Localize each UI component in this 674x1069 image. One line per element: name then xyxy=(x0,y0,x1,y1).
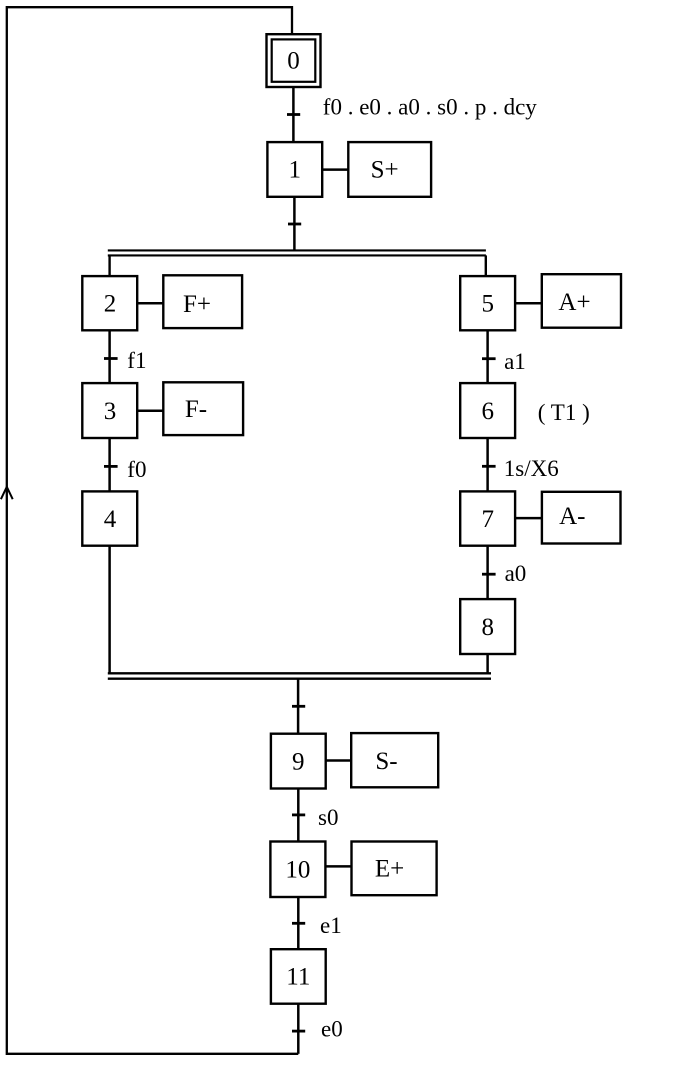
svg-text:4: 4 xyxy=(104,506,117,533)
svg-text:a0: a0 xyxy=(505,561,527,586)
parallel split double line xyxy=(108,249,486,251)
transition tick dcy xyxy=(287,113,300,116)
transition tick after step 1 xyxy=(288,223,301,226)
svg-text:A+: A+ xyxy=(558,289,590,316)
svg-text:E+: E+ xyxy=(375,855,404,882)
svg-text:a1: a1 xyxy=(504,349,526,374)
wire step 7 to transition a0 xyxy=(486,546,489,599)
transition tick f1 xyxy=(104,357,118,360)
svg-text:f0 . e0 . a0 . s0 . p . dcy: f0 . e0 . a0 . s0 . p . dcy xyxy=(323,95,537,120)
parallel join double line xyxy=(108,672,491,674)
transition tick f0 xyxy=(104,465,118,468)
step 11 box xyxy=(271,949,326,1004)
svg-text:11: 11 xyxy=(286,964,310,991)
step 3 box xyxy=(82,383,137,438)
link step 10 to action E+ xyxy=(325,865,351,868)
svg-text:6: 6 xyxy=(482,398,495,425)
transition tick after join xyxy=(292,705,305,708)
svg-text:3: 3 xyxy=(104,398,117,425)
link step 3 to action F- xyxy=(137,409,163,412)
step 8 box xyxy=(460,599,515,654)
step 2 box xyxy=(82,276,137,330)
svg-text:S+: S+ xyxy=(371,157,399,184)
transition tick e0 xyxy=(292,1030,305,1033)
initial step 0 inner box xyxy=(272,39,316,81)
transition tick 1s/X6 xyxy=(482,465,496,468)
link step 2 to action F+ xyxy=(137,302,163,305)
link step 1 to action S+ xyxy=(322,168,348,171)
wire step 2 to transition f1 xyxy=(108,330,111,383)
transition tick e1 xyxy=(292,922,305,925)
svg-text:F+: F+ xyxy=(183,291,211,318)
wire step 6 to transition 1s/X6 xyxy=(486,438,489,491)
svg-text:s0: s0 xyxy=(318,805,338,830)
step 4 box xyxy=(82,491,137,545)
wire step 0 to transition dcy xyxy=(292,88,295,142)
initial step 0 outer box xyxy=(267,34,321,87)
svg-text:8: 8 xyxy=(482,614,495,641)
svg-text:S-: S- xyxy=(375,748,397,775)
arrow up chevron on return wire xyxy=(1,487,13,499)
action box S- xyxy=(351,733,438,787)
svg-text:1: 1 xyxy=(289,157,302,184)
svg-text:e0: e0 xyxy=(321,1016,343,1041)
svg-text:5: 5 xyxy=(482,290,495,317)
step 6 box xyxy=(460,383,515,438)
link step 5 to action A+ xyxy=(515,302,542,305)
svg-text:10: 10 xyxy=(285,856,310,883)
svg-text:( T1 ): ( T1 ) xyxy=(538,400,590,425)
svg-text:A-: A- xyxy=(559,503,585,530)
action box A- xyxy=(542,492,621,544)
svg-text:2: 2 xyxy=(104,290,117,317)
wire return loop from step 11 back to step 0 xyxy=(7,7,299,1054)
wire join to step 9 xyxy=(297,679,300,734)
wire split to step 5 xyxy=(485,255,487,276)
wire split to step 2 xyxy=(108,255,110,276)
action box E+ xyxy=(352,842,437,896)
svg-text:9: 9 xyxy=(292,748,305,775)
transition tick s0 xyxy=(292,814,305,817)
link step 9 to action S- xyxy=(326,759,352,762)
svg-text:e1: e1 xyxy=(320,913,342,938)
wire step 11 to bottom loop xyxy=(297,1004,300,1054)
wire step 4 down to join xyxy=(108,546,111,674)
svg-text:0: 0 xyxy=(287,48,300,75)
action box F- xyxy=(163,382,243,435)
svg-text:1s/X6: 1s/X6 xyxy=(504,456,559,481)
wire step 8 down to join xyxy=(486,654,489,673)
step 10 box xyxy=(270,842,325,898)
svg-text:f0: f0 xyxy=(127,457,146,482)
step 5 box xyxy=(460,276,515,330)
svg-text:7: 7 xyxy=(482,506,495,533)
wire step 5 to transition a1 xyxy=(486,330,489,383)
transition tick a1 xyxy=(482,357,496,360)
action box A+ xyxy=(542,274,621,328)
wire step 9 to transition s0 xyxy=(297,789,300,842)
step 9 box xyxy=(271,734,326,789)
step 1 box xyxy=(267,142,322,197)
wire step 3 to transition f0 xyxy=(108,438,111,491)
step 7 box xyxy=(460,491,515,545)
transition tick a0 xyxy=(482,573,496,576)
action box S+ xyxy=(348,142,431,197)
action box F+ xyxy=(163,275,242,328)
wire step 10 to transition e1 xyxy=(297,897,300,949)
wire step 1 to split xyxy=(293,197,296,251)
link step 7 to action A- xyxy=(515,517,542,520)
svg-text:F-: F- xyxy=(185,396,207,423)
svg-text:f1: f1 xyxy=(127,348,146,373)
